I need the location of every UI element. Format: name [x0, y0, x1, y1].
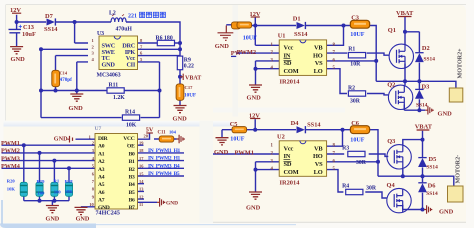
- svg-text:10K: 10K: [126, 122, 137, 128]
- svg-text:R1: R1: [348, 47, 355, 53]
- svg-text:PWM2: PWM2: [237, 49, 257, 56]
- svg-text:R6 180: R6 180: [156, 35, 173, 41]
- svg-text:10uF: 10uF: [22, 31, 36, 38]
- svg-text:VB: VB: [314, 45, 323, 52]
- svg-text:COM: COM: [284, 169, 299, 176]
- svg-text:30R: 30R: [356, 160, 367, 166]
- svg-text:Q2: Q2: [387, 82, 395, 89]
- svg-text:VBAT: VBAT: [185, 76, 201, 82]
- svg-text:SS14: SS14: [424, 57, 436, 63]
- svg-text:R2: R2: [348, 86, 355, 92]
- svg-text:5V: 5V: [146, 126, 154, 133]
- svg-text:GND: GND: [166, 201, 178, 207]
- svg-text:D1: D1: [293, 15, 301, 22]
- svg-text:B5: B5: [129, 190, 135, 196]
- svg-text:LO: LO: [314, 169, 323, 176]
- svg-text:10UF: 10UF: [230, 136, 244, 142]
- svg-text:R14: R14: [125, 109, 135, 115]
- svg-text:IR2014: IR2014: [280, 180, 301, 187]
- svg-text:IN: IN: [284, 52, 291, 59]
- svg-text:B0: B0: [129, 151, 135, 157]
- svg-text:R1: R1: [54, 178, 60, 183]
- svg-text:DIR: DIR: [98, 136, 109, 142]
- svg-text:C5: C5: [230, 121, 238, 128]
- svg-text:GND: GND: [11, 56, 26, 63]
- svg-text:IN_PWM1_H1: IN_PWM1_H1: [148, 148, 181, 154]
- svg-text:R18: R18: [65, 179, 74, 184]
- svg-text:2: 2: [92, 141, 94, 146]
- svg-text:470uH: 470uH: [116, 27, 133, 33]
- svg-text:A5: A5: [98, 182, 105, 188]
- svg-text:IN_PWM4_B5: IN_PWM4_B5: [148, 171, 180, 177]
- svg-text:104: 104: [169, 129, 177, 134]
- svg-text:SS14: SS14: [307, 122, 321, 129]
- svg-text:10R: 10R: [350, 62, 361, 68]
- svg-text:PWM2: PWM2: [1, 148, 20, 155]
- svg-text:Q1: Q1: [388, 27, 396, 34]
- svg-text:A6: A6: [98, 190, 105, 196]
- svg-text:B4: B4: [129, 182, 135, 188]
- svg-text:GND: GND: [54, 136, 68, 143]
- svg-text:10UF: 10UF: [243, 35, 257, 41]
- svg-text:12: 12: [139, 194, 143, 199]
- svg-text:A7: A7: [98, 198, 105, 204]
- svg-text:Q4: Q4: [387, 182, 396, 189]
- svg-text:GND: GND: [76, 216, 90, 223]
- svg-text:11: 11: [139, 202, 143, 207]
- svg-text:A4: A4: [98, 175, 105, 181]
- svg-text:MOTOR2-: MOTOR2-: [456, 155, 462, 184]
- svg-text:GND: GND: [46, 216, 60, 223]
- svg-text:B7: B7: [129, 205, 135, 211]
- svg-text:LO: LO: [314, 68, 323, 75]
- svg-text:D2: D2: [422, 45, 430, 52]
- svg-text:R19: R19: [37, 179, 46, 184]
- svg-text:100: 100: [54, 190, 62, 195]
- svg-text:10UF: 10UF: [184, 93, 196, 99]
- svg-text:D4: D4: [291, 120, 300, 127]
- svg-text:C3: C3: [351, 14, 359, 21]
- svg-text:221: 221: [128, 14, 137, 20]
- svg-text:0.22: 0.22: [184, 63, 194, 69]
- svg-text:C6: C6: [351, 120, 360, 127]
- svg-text:R11: R11: [109, 82, 119, 88]
- svg-text:A0: A0: [98, 144, 105, 150]
- svg-text:VS: VS: [315, 161, 323, 168]
- svg-text:D3: D3: [422, 83, 430, 90]
- svg-text:OE: OE: [127, 144, 135, 150]
- svg-text:30R: 30R: [350, 98, 361, 104]
- svg-text:Vcc: Vcc: [284, 145, 294, 152]
- svg-text:R3: R3: [342, 146, 349, 152]
- svg-text:C11: C11: [158, 130, 167, 135]
- svg-text:GND: GND: [438, 110, 453, 117]
- svg-text:IR2014: IR2014: [280, 79, 301, 86]
- svg-text:GND: GND: [439, 208, 454, 215]
- svg-text:10K: 10K: [7, 186, 16, 191]
- svg-text:Q3: Q3: [387, 138, 395, 145]
- svg-text:IN: IN: [284, 153, 291, 160]
- svg-text:CII: CII: [126, 62, 135, 69]
- svg-text:SS14: SS14: [426, 165, 438, 171]
- svg-text:470pf: 470pf: [60, 77, 73, 83]
- svg-text:GND: GND: [247, 95, 262, 102]
- svg-text:A3: A3: [98, 167, 105, 173]
- svg-text:HO: HO: [313, 52, 323, 59]
- svg-text:D6: D6: [428, 183, 437, 190]
- svg-text:PWM4: PWM4: [1, 163, 20, 170]
- svg-text:SS14: SS14: [426, 191, 438, 197]
- svg-text:VB: VB: [314, 145, 323, 152]
- svg-text:U1: U1: [278, 33, 286, 40]
- svg-text:IN_PWM2_H1: IN_PWM2_H1: [148, 156, 181, 162]
- svg-text:1.2K: 1.2K: [113, 95, 125, 101]
- svg-text:MOTOR2+: MOTOR2+: [458, 48, 464, 79]
- svg-text:PWM1: PWM1: [1, 140, 20, 147]
- svg-text:U3: U3: [97, 31, 104, 37]
- svg-text:U2: U2: [277, 133, 285, 140]
- svg-text:COM: COM: [284, 68, 299, 75]
- svg-text:B1: B1: [129, 159, 135, 165]
- svg-text:30R: 30R: [366, 185, 377, 191]
- svg-text:C14: C14: [60, 71, 68, 76]
- svg-text:HO: HO: [313, 153, 323, 160]
- svg-text:D5: D5: [429, 156, 437, 163]
- svg-text:GND: GND: [214, 149, 229, 156]
- svg-text:GND: GND: [69, 105, 84, 112]
- svg-text:SD: SD: [284, 161, 292, 168]
- svg-text:B3: B3: [129, 175, 135, 181]
- svg-text:100: 100: [38, 190, 46, 195]
- svg-text:GND: GND: [246, 205, 261, 212]
- svg-text:L2: L2: [109, 11, 116, 17]
- svg-text:SS14: SS14: [416, 103, 428, 109]
- svg-text:GND: GND: [102, 62, 116, 69]
- svg-text:10UF: 10UF: [350, 32, 364, 38]
- svg-text:B2: B2: [129, 167, 135, 173]
- svg-text:Vcc: Vcc: [284, 45, 294, 52]
- svg-text:B6: B6: [129, 198, 135, 204]
- svg-text:PWM3: PWM3: [1, 155, 20, 162]
- svg-text:PWM1: PWM1: [235, 150, 255, 157]
- svg-text:10K: 10K: [65, 189, 74, 194]
- svg-text:R20: R20: [7, 178, 16, 183]
- svg-text:IN_PWM3_B4: IN_PWM3_B4: [148, 163, 180, 169]
- svg-text:GND: GND: [173, 116, 188, 123]
- svg-text:SS14: SS14: [294, 31, 308, 38]
- svg-text:GND: GND: [215, 43, 230, 50]
- svg-text:SS14: SS14: [44, 26, 58, 33]
- svg-text:MC34063: MC34063: [97, 72, 121, 78]
- svg-text:74HC245: 74HC245: [96, 211, 120, 217]
- svg-text:1: 1: [89, 134, 91, 139]
- svg-text:VCC: VCC: [123, 136, 134, 142]
- svg-text:C17: C17: [185, 85, 194, 90]
- svg-text:R4: R4: [342, 184, 349, 190]
- svg-text:SD: SD: [284, 60, 292, 67]
- svg-text:U7: U7: [95, 126, 102, 132]
- svg-text:10UF: 10UF: [350, 138, 364, 144]
- svg-text:D7: D7: [45, 13, 54, 20]
- svg-text:A2: A2: [98, 159, 105, 165]
- svg-text:VS: VS: [315, 60, 323, 67]
- svg-text:A1: A1: [98, 151, 105, 157]
